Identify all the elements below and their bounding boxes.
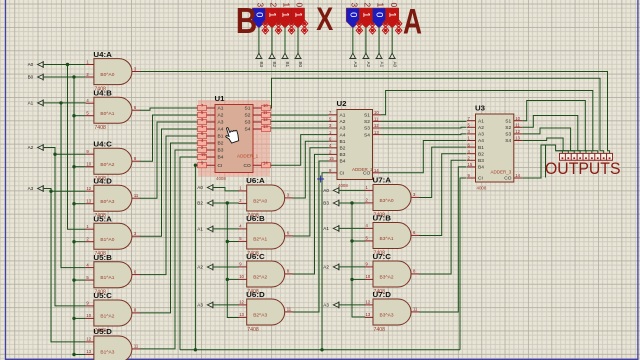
- svg-text:U6:C: U6:C: [246, 252, 265, 261]
- svg-text:B: B: [236, 0, 257, 41]
- svg-text:U4:B: U4:B: [93, 89, 112, 98]
- svg-text:B4: B4: [340, 159, 346, 165]
- svg-text:S3: S3: [505, 132, 511, 138]
- svg-text:S3: S3: [245, 120, 251, 126]
- svg-text:U5:D: U5:D: [93, 327, 112, 336]
- svg-text:A0: A0: [392, 62, 397, 68]
- svg-text:OUTPUTS: OUTPUTS: [545, 160, 621, 178]
- svg-text:CO: CO: [504, 176, 511, 182]
- svg-text:3: 3: [349, 2, 359, 7]
- svg-text:7408: 7408: [374, 327, 386, 333]
- svg-text:12: 12: [239, 300, 244, 305]
- svg-text:0: 0: [295, 2, 305, 7]
- svg-text:U7:D: U7:D: [373, 290, 392, 299]
- svg-text:B3: B3: [218, 148, 224, 154]
- svg-text:A3: A3: [323, 303, 329, 308]
- svg-text:1: 1: [360, 12, 371, 17]
- svg-text:B3: B3: [259, 62, 264, 68]
- svg-text:U5:A: U5:A: [93, 215, 112, 224]
- svg-text:13: 13: [86, 199, 91, 204]
- svg-text:7408: 7408: [247, 327, 259, 333]
- svg-text:2: 2: [363, 2, 373, 7]
- svg-text:11: 11: [374, 117, 379, 122]
- svg-text:S2: S2: [364, 119, 370, 125]
- svg-text:B3^A0: B3^A0: [380, 198, 394, 204]
- svg-text:B2^A0: B2^A0: [253, 199, 267, 205]
- svg-text:4008: 4008: [338, 183, 348, 188]
- svg-text:S2: S2: [245, 113, 251, 119]
- svg-text:B2: B2: [197, 201, 203, 206]
- svg-text:10: 10: [86, 162, 91, 167]
- svg-text:ADDER_3: ADDER_3: [491, 170, 512, 175]
- svg-text:10: 10: [366, 274, 371, 279]
- svg-text:10: 10: [86, 313, 91, 318]
- svg-text:A1: A1: [478, 118, 484, 124]
- svg-text:B2: B2: [272, 62, 277, 68]
- svg-text:7408: 7408: [94, 125, 106, 131]
- svg-text:U3: U3: [475, 104, 485, 113]
- svg-text:A3: A3: [218, 120, 224, 126]
- svg-text:A3: A3: [478, 132, 484, 138]
- svg-text:0: 0: [347, 12, 358, 17]
- svg-text:A1: A1: [379, 62, 384, 68]
- svg-text:11: 11: [263, 110, 268, 115]
- svg-text:S1: S1: [505, 118, 511, 124]
- svg-text:A3: A3: [353, 62, 358, 68]
- svg-text:11: 11: [134, 193, 139, 198]
- svg-text:U4:A: U4:A: [93, 50, 112, 59]
- svg-text:A4: A4: [218, 127, 224, 133]
- svg-text:B1^A3: B1^A3: [100, 350, 114, 356]
- svg-text:4008: 4008: [477, 186, 487, 191]
- svg-text:B0^A3: B0^A3: [100, 199, 114, 205]
- svg-text:S4: S4: [245, 127, 251, 133]
- svg-text:U5:B: U5:B: [93, 253, 112, 262]
- svg-text:11: 11: [134, 344, 139, 349]
- svg-text:B0^A0: B0^A0: [100, 72, 114, 78]
- svg-text:A4: A4: [478, 138, 484, 144]
- svg-text:CO: CO: [244, 163, 251, 169]
- svg-text:10: 10: [239, 274, 244, 279]
- svg-text:A1: A1: [28, 101, 34, 106]
- svg-text:A1: A1: [340, 113, 346, 119]
- svg-text:B3^A1: B3^A1: [380, 236, 394, 242]
- svg-text:13: 13: [263, 124, 268, 129]
- svg-text:13: 13: [86, 349, 91, 354]
- svg-text:B2: B2: [218, 141, 224, 147]
- svg-text:B4: B4: [478, 165, 484, 171]
- svg-text:12: 12: [86, 186, 91, 191]
- svg-text:B0^A1: B0^A1: [100, 111, 114, 117]
- svg-text:S3: S3: [364, 126, 370, 132]
- svg-text:B4: B4: [218, 155, 224, 161]
- svg-text:U4:D: U4:D: [93, 177, 112, 186]
- svg-text:ADDER_1: ADDER_1: [237, 154, 259, 159]
- svg-text:11: 11: [515, 123, 520, 128]
- svg-text:S4: S4: [364, 132, 370, 138]
- svg-text:2: 2: [269, 2, 279, 7]
- svg-text:12: 12: [374, 123, 379, 128]
- svg-text:ADDER_2: ADDER_2: [352, 167, 373, 172]
- svg-text:12: 12: [263, 117, 268, 122]
- svg-text:U6:B: U6:B: [246, 214, 265, 223]
- svg-text:B3: B3: [340, 152, 346, 158]
- svg-text:B2: B2: [478, 151, 484, 157]
- svg-text:13: 13: [239, 312, 244, 317]
- svg-text:B2^A3: B2^A3: [253, 313, 267, 319]
- svg-text:U4:C: U4:C: [93, 140, 112, 149]
- svg-text:B3^A2: B3^A2: [380, 275, 394, 281]
- svg-text:A0: A0: [323, 188, 329, 193]
- svg-text:15: 15: [468, 162, 473, 167]
- svg-text:A3: A3: [197, 303, 203, 308]
- svg-text:1: 1: [282, 2, 292, 7]
- svg-text:10: 10: [374, 110, 379, 115]
- svg-text:10: 10: [263, 103, 268, 108]
- svg-text:A2: A2: [323, 265, 329, 270]
- svg-text:B1^A0: B1^A0: [100, 237, 114, 243]
- svg-text:U6:D: U6:D: [246, 290, 265, 299]
- svg-text:S4: S4: [505, 138, 511, 144]
- svg-text:15: 15: [201, 152, 206, 157]
- svg-text:B0: B0: [28, 75, 34, 80]
- svg-text:13: 13: [374, 130, 379, 135]
- svg-text:B1: B1: [478, 145, 484, 151]
- svg-text:A3: A3: [28, 186, 34, 191]
- svg-text:B1^A2: B1^A2: [100, 314, 114, 320]
- svg-text:U2: U2: [337, 99, 347, 108]
- svg-text:A2: A2: [340, 119, 346, 125]
- svg-text:A1: A1: [218, 106, 224, 112]
- svg-text:1: 1: [376, 2, 386, 7]
- svg-text:A0: A0: [28, 62, 34, 67]
- svg-text:S2: S2: [505, 125, 511, 131]
- svg-text:U1: U1: [215, 94, 225, 103]
- svg-text:4008: 4008: [216, 176, 226, 181]
- svg-text:B3: B3: [478, 158, 484, 164]
- svg-text:A4: A4: [340, 132, 346, 138]
- svg-text:1: 1: [280, 12, 291, 17]
- svg-text:14: 14: [263, 160, 268, 165]
- svg-text:A0: A0: [197, 185, 203, 190]
- svg-text:B1^A1: B1^A1: [100, 275, 114, 281]
- svg-text:CI: CI: [218, 163, 223, 169]
- svg-text:A2: A2: [28, 145, 34, 150]
- svg-text:B2^A2: B2^A2: [253, 275, 267, 281]
- svg-text:A2: A2: [366, 62, 371, 68]
- svg-text:U7:A: U7:A: [373, 176, 392, 185]
- svg-text:A1: A1: [323, 226, 329, 231]
- svg-text:13: 13: [515, 136, 520, 141]
- svg-text:0: 0: [389, 2, 399, 7]
- svg-text:S1: S1: [245, 106, 251, 112]
- svg-text:CI: CI: [478, 176, 483, 182]
- svg-text:A2: A2: [218, 113, 224, 119]
- svg-text:A2: A2: [478, 125, 484, 131]
- svg-text:U7:B: U7:B: [373, 214, 392, 223]
- svg-text:1: 1: [387, 12, 398, 17]
- svg-text:15: 15: [329, 156, 334, 161]
- svg-text:13: 13: [366, 312, 371, 317]
- svg-text:B0: B0: [298, 62, 303, 68]
- svg-text:CI: CI: [340, 171, 345, 177]
- svg-text:12: 12: [86, 337, 91, 342]
- svg-text:12: 12: [366, 300, 371, 305]
- svg-text:S1: S1: [364, 113, 370, 119]
- svg-text:1: 1: [267, 12, 278, 17]
- svg-text:B2^A1: B2^A1: [253, 237, 267, 243]
- svg-text:A2: A2: [197, 265, 203, 270]
- svg-text:B1: B1: [218, 134, 224, 140]
- svg-text:A1: A1: [197, 227, 203, 232]
- svg-text:B3^A3: B3^A3: [380, 313, 394, 319]
- svg-text:A: A: [403, 2, 422, 41]
- svg-text:11: 11: [287, 307, 292, 312]
- svg-text:1: 1: [293, 12, 304, 17]
- svg-text:X: X: [316, 1, 334, 37]
- svg-text:U5:C: U5:C: [93, 291, 112, 300]
- svg-text:14: 14: [515, 173, 520, 178]
- svg-text:14: 14: [374, 168, 379, 173]
- svg-text:B1: B1: [285, 62, 290, 68]
- svg-text:A3: A3: [340, 126, 346, 132]
- svg-text:11: 11: [413, 307, 418, 312]
- svg-text:10: 10: [515, 116, 520, 121]
- svg-text:B1: B1: [340, 139, 346, 145]
- svg-text:B0^A2: B0^A2: [100, 162, 114, 168]
- svg-text:B2: B2: [340, 146, 346, 152]
- svg-text:U6:A: U6:A: [246, 176, 265, 185]
- svg-text:U7:C: U7:C: [373, 252, 392, 261]
- svg-text:12: 12: [515, 129, 520, 134]
- svg-text:B3: B3: [323, 201, 329, 206]
- svg-text:0: 0: [374, 12, 385, 17]
